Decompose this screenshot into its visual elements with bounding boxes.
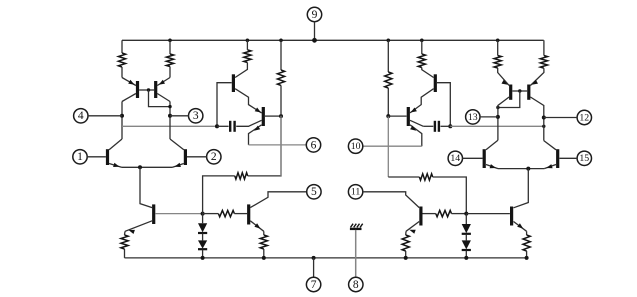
svg-text:12: 12 — [579, 112, 589, 123]
svg-text:4: 4 — [78, 110, 84, 122]
svg-text:8: 8 — [353, 279, 359, 291]
svg-text:6: 6 — [311, 139, 317, 151]
svg-text:13: 13 — [468, 112, 478, 123]
svg-text:5: 5 — [311, 186, 317, 198]
svg-text:10: 10 — [351, 141, 361, 152]
svg-text:2: 2 — [211, 151, 217, 163]
svg-text:1: 1 — [77, 151, 83, 163]
svg-text:15: 15 — [579, 153, 589, 164]
svg-text:7: 7 — [311, 279, 317, 291]
svg-text:11: 11 — [351, 187, 361, 198]
svg-text:9: 9 — [312, 9, 318, 21]
svg-text:14: 14 — [450, 153, 460, 164]
svg-text:3: 3 — [193, 110, 199, 122]
